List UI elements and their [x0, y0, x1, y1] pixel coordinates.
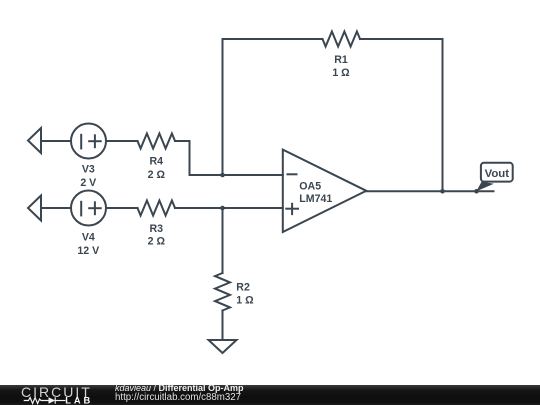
wire R3 to non-inverting input [175, 207, 283, 209]
svg-text:R2: R2 [236, 281, 250, 293]
flag Vout box [476, 182, 494, 192]
node junction at inverting input [220, 173, 225, 178]
svg-text:12 V: 12 V [77, 245, 99, 257]
resistor R2 [215, 273, 230, 311]
wire R4 to inverting input [175, 141, 283, 175]
wire flag to V3 [41, 140, 71, 142]
voltage source V4 [71, 191, 106, 226]
op-amp non-inverting input marker + [286, 208, 298, 210]
svg-text:OA5: OA5 [299, 181, 321, 193]
node junction feedback/output [440, 189, 445, 194]
svg-text:LM741: LM741 [299, 193, 332, 205]
svg-text:2 Ω: 2 Ω [148, 169, 166, 181]
node junction Vout tap [474, 189, 479, 194]
svg-text:Vout: Vout [485, 168, 510, 180]
svg-text:1 Ω: 1 Ω [332, 67, 350, 79]
resistor R3 [138, 201, 176, 216]
voltage source V3 [71, 124, 106, 159]
op-amp inverting input marker - [288, 173, 297, 175]
input flag V4 arrow [28, 196, 41, 221]
wire feedback right vertical [360, 39, 443, 190]
input flag V3 arrow [28, 128, 41, 153]
node junction at non-inverting input [220, 206, 225, 211]
svg-text:2 V: 2 V [80, 177, 96, 189]
ground [209, 340, 237, 353]
svg-text:LAB: LAB [65, 396, 93, 405]
wire V3 to R4 [106, 140, 138, 142]
svg-text:V3: V3 [82, 164, 95, 176]
svg-text:R3: R3 [150, 223, 164, 235]
svg-text:2 Ω: 2 Ω [148, 236, 166, 248]
footer bar [0, 385, 540, 405]
wire output [366, 190, 493, 192]
svg-text:V4: V4 [82, 232, 95, 244]
svg-text:R1: R1 [334, 54, 348, 66]
svg-text:R4: R4 [150, 156, 164, 168]
credit text [115, 383, 244, 403]
op-amp U1 OA5 [283, 150, 367, 232]
svg-text:1 Ω: 1 Ω [236, 295, 254, 307]
resistor R4 [138, 134, 176, 149]
wire flag to V4 [41, 207, 71, 209]
wire node to R2 [222, 208, 224, 273]
wire R2 to ground [222, 311, 224, 341]
CircuitLab logo [15, 385, 100, 405]
wire feedback left vertical [223, 39, 323, 174]
resistor R1 [323, 32, 361, 47]
wire V4 to R3 [106, 207, 138, 209]
